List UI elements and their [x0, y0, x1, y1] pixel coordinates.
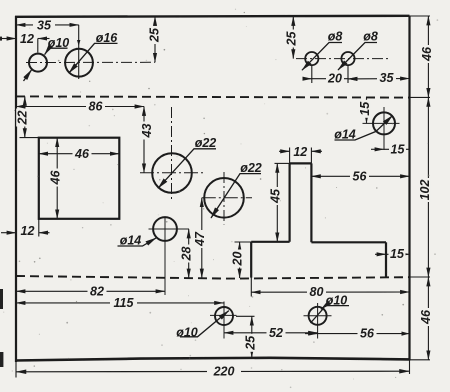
extension stem top to left [275, 162, 290, 164]
svg-text:115: 115 [114, 296, 135, 310]
svg-text:ø14: ø14 [334, 128, 356, 142]
dimension 46 vertical in square [56, 138, 58, 219]
svg-text:43: 43 [140, 124, 154, 139]
svg-text:15: 15 [391, 143, 406, 157]
leader d14 right [335, 116, 393, 141]
dimension 12 top-left tail outside [2, 38, 17, 40]
center line d8 circles (dash-dot) [296, 58, 389, 60]
center line d22-1 vertical (dash-dot) [171, 107, 173, 201]
text 46 right top [420, 45, 434, 63]
dimension 46 right bottom [427, 277, 429, 360]
svg-text:ø22: ø22 [240, 161, 262, 175]
text 28 rotated [180, 245, 194, 263]
svg-text:ø14: ø14 [120, 233, 142, 247]
svg-text:ø10: ø10 [326, 293, 348, 307]
extension right border below part [409, 360, 411, 374]
svg-text:46: 46 [419, 309, 433, 325]
center line d22-1 horizontal [140, 172, 205, 174]
leader d8 first diagonal [302, 43, 377, 71]
dimension 12 square tail outside [1, 232, 16, 234]
dimension 46 right top [427, 16, 429, 97]
svg-text:35: 35 [37, 18, 52, 32]
leader d22 first diagonal [158, 149, 216, 189]
text 86 [86, 100, 105, 114]
part outline border top [15, 15, 410, 18]
leader d10 top-left [24, 43, 118, 81]
hole circle d22 first [152, 153, 192, 193]
svg-text:ø8: ø8 [363, 30, 378, 44]
hole circle d10 top-left [29, 54, 47, 72]
part outline border bottom [15, 358, 410, 361]
text 43 rotated [140, 122, 154, 140]
svg-text:12: 12 [293, 145, 307, 159]
hole circle d10 bottom-left [215, 307, 233, 325]
text 82 [88, 284, 107, 298]
pedestal stem left [289, 163, 291, 241]
dimension 43 [143, 107, 145, 173]
part outline border left [15, 16, 17, 362]
dimension 56 upper [311, 175, 409, 177]
svg-text:12: 12 [21, 224, 35, 238]
text 15 base-to-border [389, 247, 406, 261]
svg-text:ø8: ø8 [328, 30, 343, 44]
dimension 115 [16, 302, 224, 304]
svg-text:86: 86 [89, 100, 104, 114]
leader d10 bottom-right [321, 306, 349, 310]
dimension 15 vertical d14 [366, 97, 368, 123]
dimension 86 [16, 106, 144, 108]
extension square left edge down [38, 219, 40, 237]
svg-text:45: 45 [269, 188, 283, 204]
svg-text:25: 25 [147, 27, 161, 43]
dimension 35 top-left [16, 24, 79, 26]
text 56 bottom [358, 327, 377, 341]
dimension 15 base-to-border [375, 253, 386, 255]
center line circles top-left (dash-dot) [26, 61, 155, 63]
pedestal stem top [290, 162, 312, 164]
extension left border below part [15, 361, 17, 378]
hole circle d8 first [305, 52, 318, 65]
dimension 82 [16, 290, 165, 292]
extension line d16 vertical [78, 25, 80, 79]
svg-text:102: 102 [418, 180, 432, 201]
svg-text:46: 46 [420, 46, 434, 62]
dimension 12 stem arrows [279, 150, 290, 152]
extension line bottom right [410, 359, 431, 361]
text 25 bottom rotated [243, 334, 257, 352]
svg-text:80: 80 [310, 285, 324, 299]
center line d14-mid vertical [164, 217, 166, 296]
dimension 56 bottom [305, 333, 318, 335]
text 47 rotated [193, 230, 207, 248]
extension stem edges up [289, 148, 291, 164]
dimension 25 top-right [292, 17, 294, 59]
text 15 vertical d14 rotated [358, 100, 372, 118]
extension line d8 first down [311, 66, 313, 83]
dimension 25 top-left [154, 17, 156, 63]
dimension 80 [251, 291, 409, 293]
svg-text:25: 25 [284, 31, 298, 47]
dimension 35 top-right [348, 78, 410, 80]
text 80 [307, 285, 326, 299]
svg-text:47: 47 [193, 231, 207, 247]
svg-text:82: 82 [90, 284, 104, 298]
svg-text:12: 12 [20, 32, 34, 46]
text 25 top-left rotated [147, 26, 161, 44]
dimension 20 pedestal [239, 242, 241, 278]
hole circle d14 middle-left [153, 217, 177, 241]
svg-text:15: 15 [358, 101, 372, 116]
extension line fold1 right [409, 96, 430, 98]
svg-text:20: 20 [231, 252, 245, 267]
hole circle d10 bottom-right [309, 307, 327, 325]
pedestal base left [250, 242, 252, 278]
dimension 46 horizontal in square [39, 153, 120, 155]
dimension 12 square right arrow [39, 232, 50, 234]
svg-text:46: 46 [48, 170, 62, 186]
dimension 15 horizontal d14 [371, 148, 384, 150]
svg-text:ø16: ø16 [96, 31, 119, 45]
pedestal right shoulder [311, 241, 386, 243]
svg-text:56: 56 [353, 169, 368, 183]
text 102 right [418, 178, 432, 202]
svg-text:52: 52 [269, 326, 283, 340]
extension base top to left [235, 241, 252, 243]
text 45 rotated [269, 187, 283, 205]
text 20 pedestal rotated [231, 250, 245, 268]
fold line 2 (dashed) [16, 276, 409, 279]
hole circle d14 right [373, 112, 395, 134]
dimension 220 bottom [16, 370, 410, 373]
extension line d10 center up [37, 39, 39, 53]
pedestal stem right [310, 163, 312, 242]
extension line top right [410, 15, 431, 17]
svg-text:220: 220 [213, 365, 235, 379]
text 46 right bottom [419, 308, 433, 326]
dimension 52 [224, 332, 318, 334]
center line d22-2 vertical (dash-dot) [223, 172, 225, 225]
svg-text:35: 35 [380, 71, 395, 85]
svg-text:ø22: ø22 [195, 136, 217, 150]
text 56 upper [350, 169, 369, 183]
leader tail d10 lower-left [24, 70, 32, 81]
svg-text:28: 28 [180, 247, 194, 262]
text 52 [267, 326, 286, 340]
dimension 20 outside arrows [303, 78, 312, 80]
text 35 top-left [33, 18, 55, 32]
center line d14-mid horizontal [149, 228, 190, 230]
text 15 horizontal d14 [389, 143, 406, 157]
leader d22 second diagonal [211, 174, 261, 218]
pedestal base right [385, 242, 387, 277]
center line d10-bl horizontal [210, 314, 237, 316]
text 220 [207, 365, 241, 379]
hole circle d16 top-left [65, 49, 93, 77]
svg-text:46: 46 [74, 147, 90, 161]
leader d14 middle-left [118, 238, 157, 246]
leader d8 second diagonal [338, 43, 377, 71]
text 115 [110, 296, 137, 310]
center line d10-bl vertical [223, 302, 225, 339]
text 35 top-right [377, 71, 396, 85]
extension square top-left [20, 137, 40, 139]
dimension 45 [276, 163, 278, 241]
center line d14-right vertical [383, 107, 385, 150]
pedestal left shoulder [251, 241, 289, 243]
arrow on d16 extension [77, 40, 80, 46]
hole circle d22 second [204, 178, 244, 218]
dimension 12 top-left right arrow [38, 38, 50, 40]
text 25 top-right rotated [284, 30, 298, 48]
text 46 square horizontal [73, 147, 92, 161]
svg-text:ø10: ø10 [176, 325, 198, 339]
text 22 rotated [16, 109, 30, 127]
leader d16 diagonal [69, 43, 118, 73]
svg-text:15: 15 [390, 247, 405, 261]
center line d22-2 horizontal [202, 197, 252, 199]
dimension 25 bottom [251, 316, 253, 357]
center line d10-br vertical [317, 303, 319, 339]
diagonal d10 bottom-right [311, 308, 325, 323]
fold line 1 (dashed) [16, 96, 409, 97]
svg-text:56: 56 [360, 327, 375, 341]
text 46 square vertical rotated [48, 169, 62, 187]
svg-text:22: 22 [16, 111, 30, 126]
svg-text:20: 20 [327, 71, 342, 85]
part outline border right [408, 16, 410, 361]
hole circle d8 second [341, 52, 354, 65]
extension base-left below fold [250, 277, 252, 297]
center line d14-right horizontal [363, 122, 400, 124]
dimension 28 [188, 229, 190, 278]
text 20 top-right [326, 71, 344, 85]
extension line fold2 right [409, 276, 430, 278]
dimension 47 [201, 198, 203, 278]
dimension 22 [24, 96, 26, 137]
svg-text:25: 25 [243, 335, 257, 351]
extension line d8 second down [347, 66, 349, 83]
square cutout 46x46 [39, 138, 120, 219]
center line d10-br horizontal [304, 315, 332, 317]
dimension 102 right [427, 97, 429, 277]
extension d10-bl center right [236, 315, 255, 317]
leader d10 bottom-left [180, 311, 229, 337]
